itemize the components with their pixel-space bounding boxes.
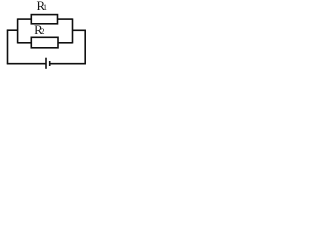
wire bottom right (from battery negative plate) — [50, 63, 86, 65]
label R1 — [37, 0, 48, 13]
wire R1 left lead — [18, 18, 32, 20]
battery negative plate (short) — [49, 61, 51, 66]
wire R2 right lead — [58, 42, 73, 44]
wire R2 left lead — [18, 42, 32, 44]
wire left bus (node joining R1 and R2 left ends) — [17, 18, 19, 43]
wire left tap from bus to outer loop — [7, 29, 18, 31]
resistor R2 — [31, 37, 58, 48]
wire bottom left (to battery positive plate) — [7, 63, 46, 65]
wire outer left vertical — [7, 30, 9, 65]
resistor R1 — [31, 15, 57, 24]
wire R1 right lead — [58, 18, 73, 20]
battery positive plate (long) — [45, 58, 47, 69]
wire right bus (node joining R1 and R2 right ends) — [72, 18, 74, 43]
label R2 — [34, 23, 44, 37]
wire outer right vertical — [84, 30, 86, 65]
wire right tap from bus to outer loop — [73, 29, 86, 31]
svg-text:2: 2 — [41, 27, 45, 36]
svg-text:1: 1 — [43, 3, 47, 12]
